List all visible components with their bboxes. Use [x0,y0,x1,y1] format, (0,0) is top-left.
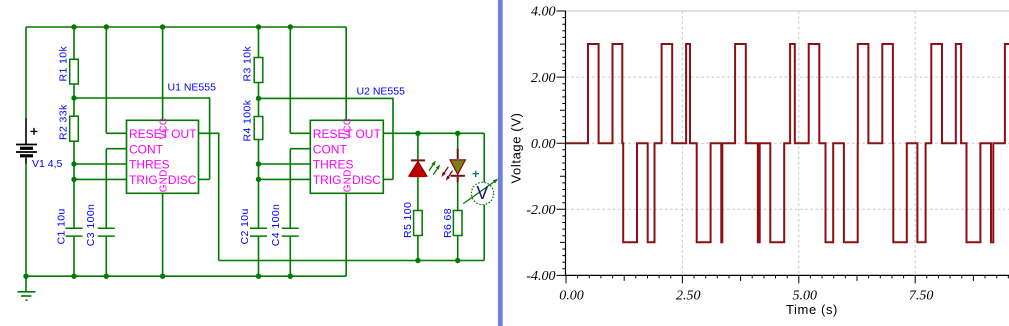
svg-text:C4 100n: C4 100n [270,204,282,247]
svg-text:DISC: DISC [168,173,197,187]
resistor R6 [453,211,462,236]
wire: U1 CONT stub [106,148,126,150]
resistor R3 [254,58,263,83]
wire: U2 GND riser x=346.2 [345,193,347,276]
wire: U2 CONT stub [290,148,310,150]
op-amp U2 NE555 box [310,120,383,193]
node: U2 THRES junction [256,161,261,166]
svg-text:R1 10k: R1 10k [57,45,69,81]
wire: R3/R4 column x=258.5 [258,27,260,276]
wire: U2 RESET riser x=290 [289,27,291,133]
svg-text:R5 100: R5 100 [402,202,414,238]
node: top rail junctions [71,24,76,29]
wire: ground stem below battery [25,276,27,291]
svg-text:0.00: 0.00 [531,137,556,152]
LED D1 (red, cathode up) [409,160,427,176]
svg-text:VCC: VCC [343,118,354,140]
svg-text:OUT: OUT [355,127,381,141]
gridline: vertical dashed 2.50 / 5.00 / 7.50 [682,11,915,275]
resistor R5 [414,211,423,236]
wire: U2 OUT net to LEDs and voltmeter [383,132,484,134]
op-amp U1 NE555 box [127,120,199,193]
svg-text:R4 100k: R4 100k [242,99,254,141]
capacitor C3 [98,228,115,236]
svg-text:R3 10k: R3 10k [241,45,253,81]
svg-text:GND: GND [343,169,354,192]
wire: U2 RESET stub [290,132,310,134]
wire: U2 VCC riser x=346.2 [345,27,347,120]
LED D2 (yellow, cathode down) [450,149,465,183]
wire: ground rail y=276.2 [26,275,346,277]
LED D1 emission arrows (green) [429,161,440,175]
resistor R1 [70,59,79,84]
wire: U1 RESET riser x=106.8 [105,27,107,133]
wire: U2 CONT / C4 column x=290.7 [289,149,291,277]
wire: U2 discharge riser x=393 [259,98,394,179]
svg-text:GND: GND [159,169,170,192]
svg-text:TRIG: TRIG [129,173,158,187]
wire: U1 VCC riser x=162.6 [162,27,164,120]
svg-text:C3 100n: C3 100n [85,204,97,247]
wire: R1/R2 column x=74 [73,27,75,276]
node: U1 TRIG junction [71,177,76,182]
gridline: horizontal dashed 2.00 / 0.00 / -2.00 [566,77,1009,209]
wire: U1 DISC stub [199,178,210,180]
svg-text:OUT: OUT [171,127,197,141]
resistor R2 [70,116,79,141]
svg-text:Voltage (V): Voltage (V) [509,113,524,184]
svg-text:V1 4,5: V1 4,5 [32,158,63,170]
capacitor C2 [250,228,267,236]
svg-text:R2 33k: R2 33k [57,104,69,140]
wire: U2 DISC stub [383,178,393,180]
node: R1-R2 junction [71,95,76,100]
resistor R4 [254,117,263,140]
svg-text:-4.00: -4.00 [526,269,555,284]
y axis ticks [557,11,566,275]
x axis ticks [566,275,1008,283]
ground [18,292,36,300]
svg-text:TRIG: TRIG [313,173,342,187]
waveform trace [566,44,1009,242]
svg-text:DISC: DISC [352,173,381,187]
node: U1 THRES junction [71,161,76,166]
wire: LED D2 column x=457.7 [457,133,459,260]
wire: U1 RESET stub [106,132,126,134]
node: U2 TRIG junction [256,177,261,182]
node: ground rail junctions [23,274,28,279]
wire: U1 THRES stub [74,163,127,165]
y axis [565,11,567,276]
node: U1 OUT rail junctions [415,258,420,263]
wire: U2 THRES stub [259,163,311,165]
node: R3-R4 junction [256,96,261,101]
svg-text:V: V [476,183,488,203]
svg-text:C2 10u: C2 10u [239,208,251,244]
svg-text:CONT: CONT [313,142,348,156]
wire: U1 GND riser x=162.6 [162,193,164,276]
svg-text:CONT: CONT [129,142,164,156]
svg-text:2.00: 2.00 [531,71,556,86]
wire: U1 discharge riser x=209.6 [74,98,210,179]
gridline: 4.00 solid top [566,10,1009,12]
voltmeter V [463,171,498,205]
wire: U1 CONT / C3 column x=106 [105,149,107,277]
wire: battery column top (V+ net) [25,27,27,119]
svg-text:0.00: 0.00 [559,289,584,304]
svg-text:-2.00: -2.00 [526,203,555,218]
wire: top VCC rail [26,26,346,28]
battery V1 [16,119,38,164]
svg-text:VCC: VCC [159,118,170,140]
wire: U1 TRIG stub [74,178,127,180]
wire: U1 OUT to lower rail riser [199,133,219,260]
wire: voltmeter column x=484.2 [483,133,485,260]
wire: battery column bottom to ground rail [25,163,27,276]
svg-text:7.50: 7.50 [909,289,934,304]
svg-text:U2 NE555: U2 NE555 [357,86,406,98]
LED D2 emission arrows (dark red) [442,167,453,181]
svg-text:R6 68: R6 68 [442,208,454,238]
capacitor C4 [282,228,299,236]
svg-text:C1 10u: C1 10u [56,208,68,244]
node: U2 OUT net junctions [415,131,420,136]
svg-text:2.50: 2.50 [676,289,701,304]
svg-text:Time (s): Time (s) [786,302,838,317]
svg-text:U1 NE555: U1 NE555 [168,82,217,94]
wire: U2 TRIG stub [259,178,311,180]
svg-text:4.00: 4.00 [531,5,556,20]
wire: U1 OUT lower rail y=260.5 [219,260,485,262]
wire: LED D1 column x=417.9 [417,133,419,260]
x axis [566,274,1009,276]
capacitor C1 [66,228,83,236]
